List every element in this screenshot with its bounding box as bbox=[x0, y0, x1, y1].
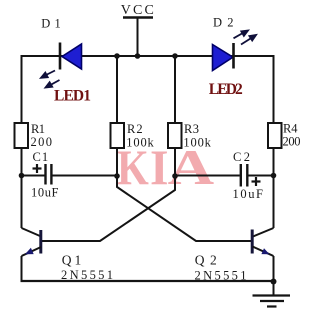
svg-text:C1: C1 bbox=[33, 150, 49, 164]
svg-text:100k: 100k bbox=[126, 136, 154, 150]
svg-text:200: 200 bbox=[31, 135, 53, 149]
svg-text:Q1: Q1 bbox=[62, 253, 81, 268]
svg-text:VCC: VCC bbox=[121, 3, 154, 18]
svg-text:10uF: 10uF bbox=[31, 186, 59, 200]
svg-text:10uF: 10uF bbox=[233, 187, 264, 201]
svg-text:R3: R3 bbox=[184, 122, 199, 136]
svg-text:200: 200 bbox=[283, 135, 301, 149]
svg-text:LED2: LED2 bbox=[209, 81, 243, 98]
svg-text:R2: R2 bbox=[127, 122, 143, 136]
svg-text:R4: R4 bbox=[283, 122, 298, 136]
svg-text:LED1: LED1 bbox=[54, 88, 91, 105]
svg-text:R1: R1 bbox=[31, 122, 45, 136]
svg-text:100k: 100k bbox=[183, 136, 211, 150]
